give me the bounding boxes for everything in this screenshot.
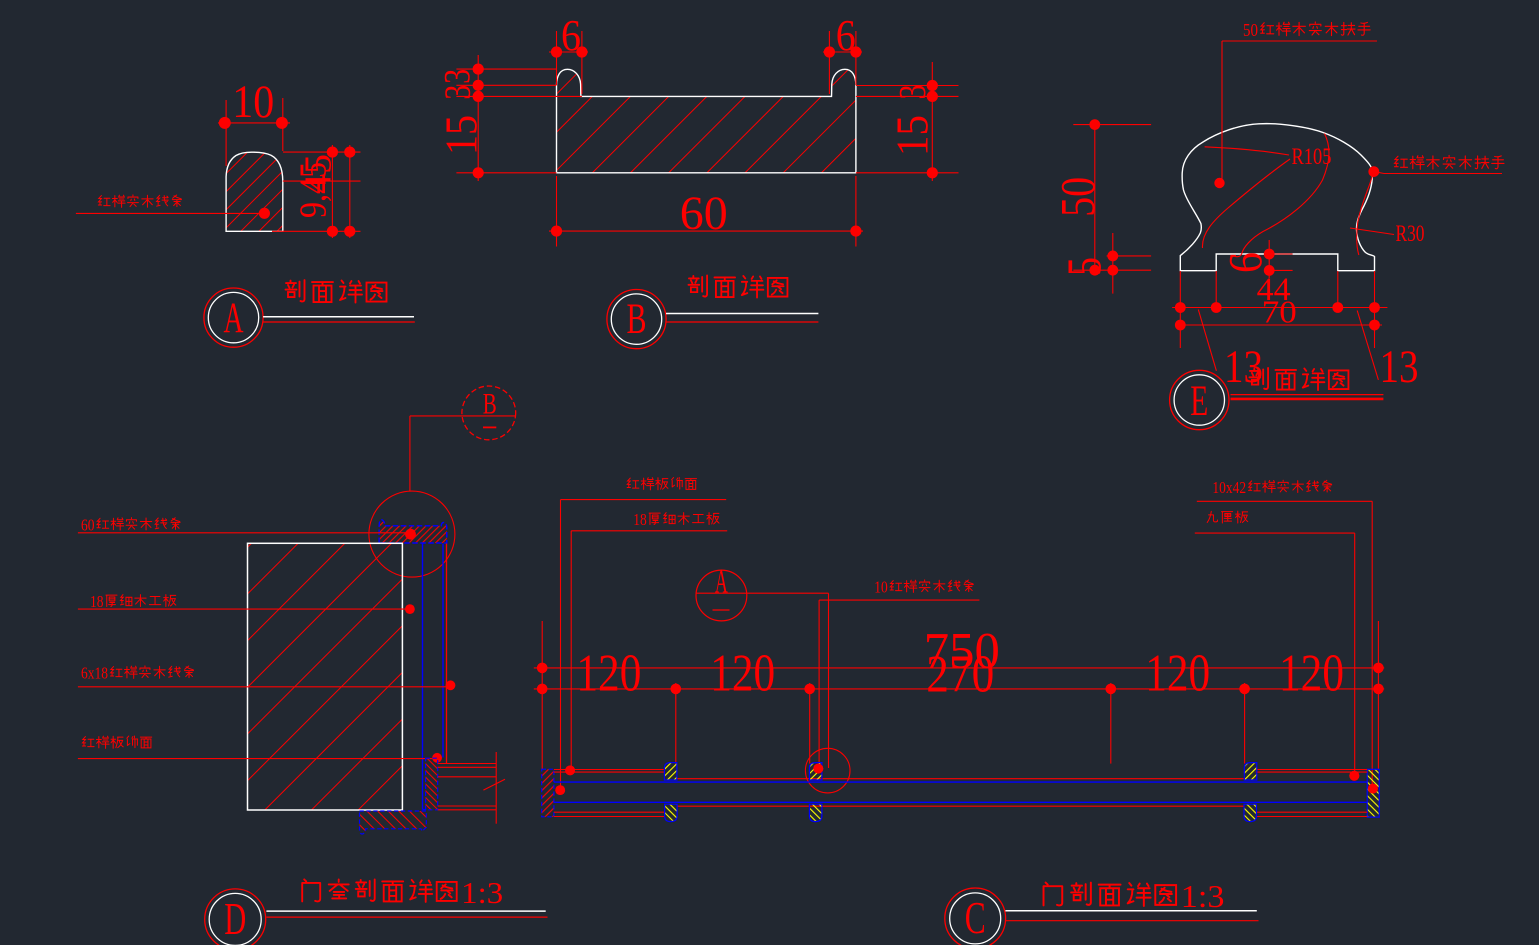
svg-text:18: 18 bbox=[633, 510, 647, 529]
svg-text:6: 6 bbox=[561, 11, 581, 60]
svg-text:R105: R105 bbox=[1292, 144, 1332, 169]
svg-text:10: 10 bbox=[874, 578, 888, 597]
svg-text:5: 5 bbox=[1057, 257, 1112, 276]
svg-text:C: C bbox=[965, 892, 986, 943]
svg-text:1:3: 1:3 bbox=[1181, 879, 1225, 914]
svg-text:6x18: 6x18 bbox=[81, 664, 108, 683]
svg-text:70: 70 bbox=[1262, 294, 1297, 330]
svg-text:120: 120 bbox=[710, 645, 775, 703]
svg-text:1:3: 1:3 bbox=[461, 876, 503, 910]
svg-text:3: 3 bbox=[892, 85, 934, 100]
svg-text:6: 6 bbox=[1220, 252, 1273, 273]
svg-text:270: 270 bbox=[926, 646, 994, 704]
svg-text:15: 15 bbox=[436, 115, 487, 155]
svg-text:6: 6 bbox=[836, 11, 856, 60]
svg-text:A: A bbox=[224, 295, 244, 342]
svg-text:3: 3 bbox=[438, 85, 479, 100]
svg-text:120: 120 bbox=[1279, 645, 1344, 703]
svg-text:3: 3 bbox=[438, 69, 479, 84]
svg-text:D: D bbox=[224, 893, 246, 944]
svg-text:E: E bbox=[1190, 378, 1208, 425]
svg-text:B: B bbox=[627, 296, 647, 343]
svg-text:60: 60 bbox=[81, 515, 95, 534]
svg-text:15: 15 bbox=[887, 115, 938, 156]
svg-text:50: 50 bbox=[1050, 177, 1105, 217]
svg-text:B: B bbox=[483, 387, 497, 420]
svg-text:R30: R30 bbox=[1396, 221, 1425, 246]
svg-text:10: 10 bbox=[232, 76, 274, 128]
svg-text:10x42: 10x42 bbox=[1212, 478, 1246, 497]
svg-text:9,45: 9,45 bbox=[293, 162, 335, 218]
svg-text:13: 13 bbox=[1380, 341, 1419, 393]
svg-text:120: 120 bbox=[576, 645, 641, 703]
svg-text:120: 120 bbox=[1145, 645, 1210, 703]
svg-text:18: 18 bbox=[90, 592, 104, 611]
svg-text:A: A bbox=[715, 564, 728, 601]
svg-text:60: 60 bbox=[680, 187, 728, 240]
svg-text:50: 50 bbox=[1243, 20, 1258, 40]
